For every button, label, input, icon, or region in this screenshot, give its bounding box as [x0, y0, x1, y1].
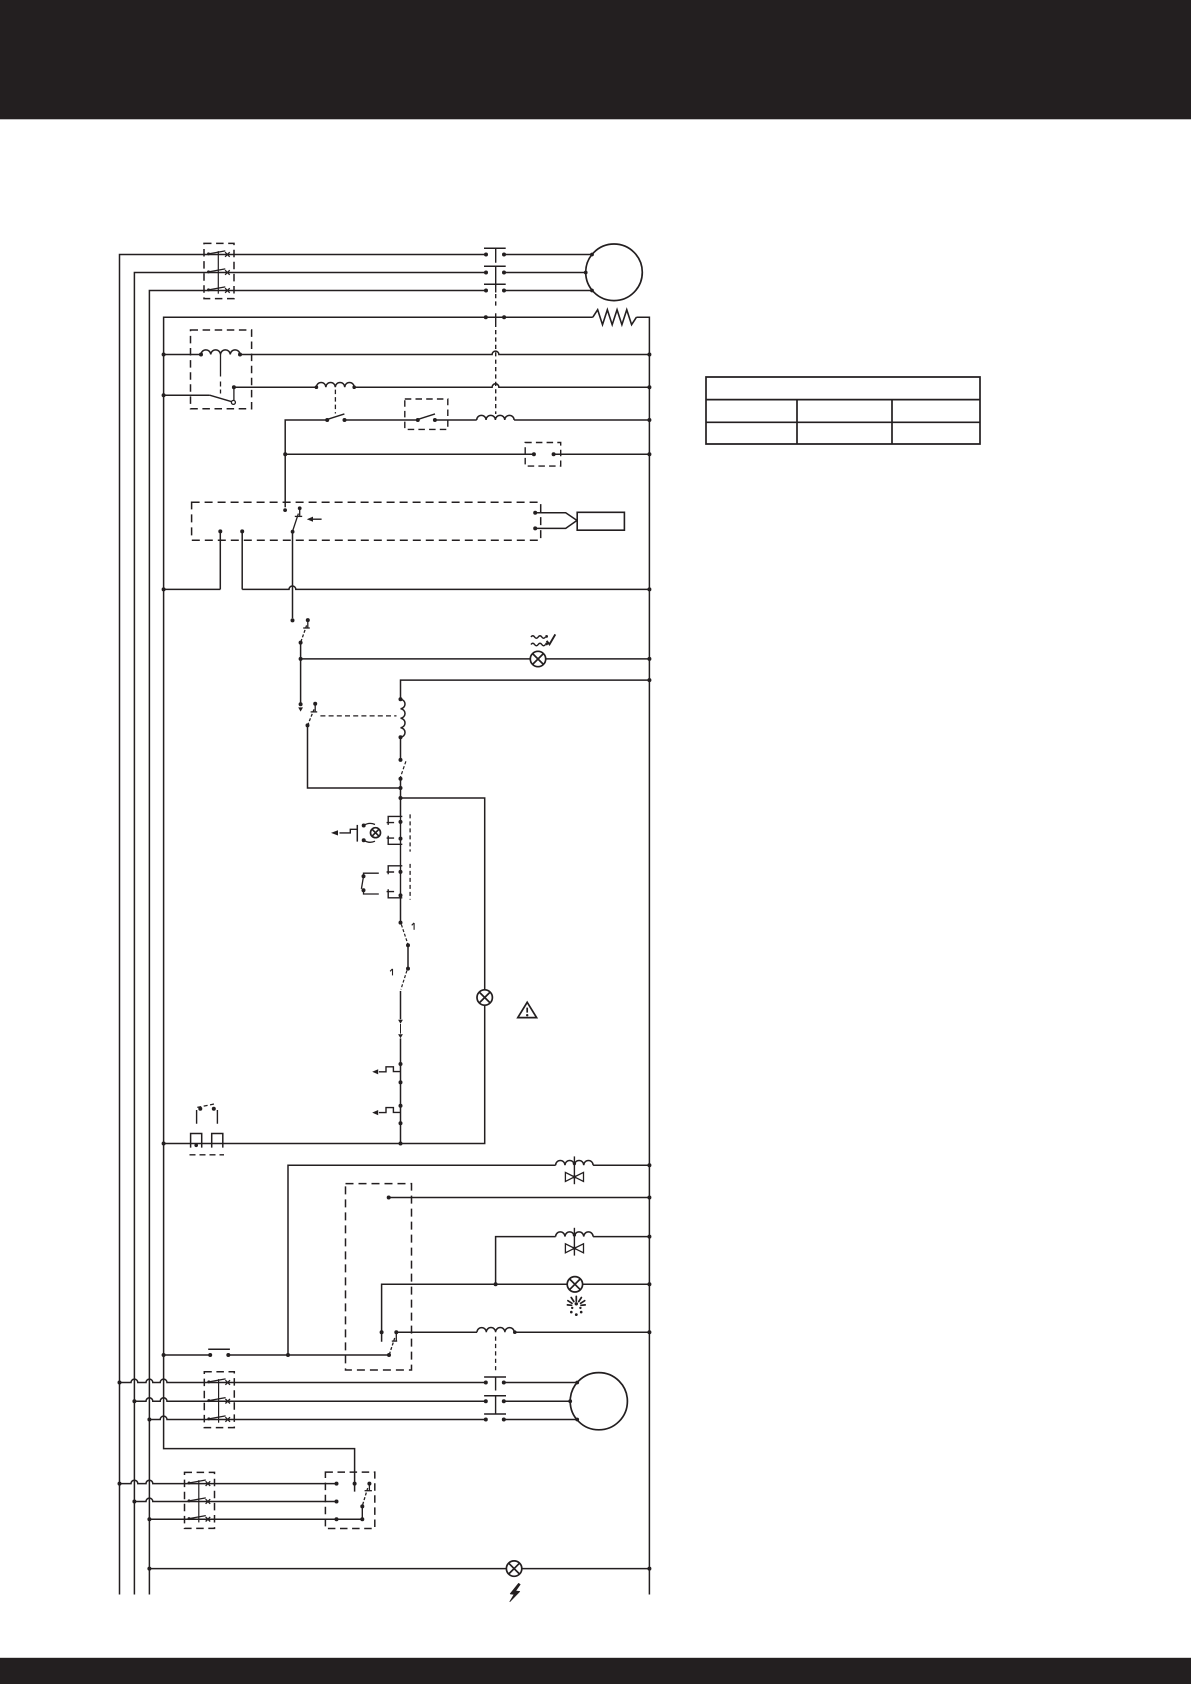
push-button actuation arrow: [331, 829, 357, 835]
overload protector OL2: [484, 1377, 506, 1422]
indicator lamp power: [506, 1561, 521, 1576]
legend table (empty): [706, 377, 980, 444]
wire timer terminal line: [387, 1196, 650, 1200]
voltage selector dashed box: [325, 1472, 374, 1528]
inline connector pair on control column: [398, 1020, 403, 1144]
timer dashed enclosure: [346, 1184, 412, 1370]
relay coil K5 (vertical): [399, 697, 406, 760]
push-button lamp assembly: [357, 823, 380, 842]
wire sensor bus: [164, 586, 650, 589]
icon wrinkle-guard squiggles + check: [531, 634, 555, 645]
wire gas valve 2 line: [494, 1237, 556, 1287]
page header bar: [0, 0, 1191, 119]
indicator lamp flame: [567, 1277, 582, 1292]
wire selector line: [164, 1349, 391, 1357]
icon spray/steam: [567, 1296, 585, 1316]
wire aux motor line: [396, 1331, 477, 1333]
aux switch on PB2: [361, 873, 378, 894]
page footer bar: [0, 1658, 1191, 1684]
indicator lamp DRY: [530, 651, 545, 666]
wire bus L2 + phase 2 feed: [132, 273, 486, 1595]
mech link S2 to relay coil: [320, 715, 396, 717]
push-button start contact PB1: [387, 814, 411, 851]
wire start branch to lamp column: [401, 798, 485, 990]
wire S2 to coil return: [308, 725, 401, 788]
wire gas valve 1 line: [286, 1165, 556, 1357]
contactor K4 (aux, 3-pole): [185, 1472, 215, 1528]
wire M2 phase B: [134, 1398, 486, 1401]
wire M2 phase B out: [504, 1399, 572, 1403]
switch S4: [390, 967, 410, 1020]
wire phase 3 to motor M1: [504, 289, 594, 293]
mech link start winding to OL2: [495, 1337, 497, 1372]
thermostat contact T1: [325, 414, 418, 422]
wire M2 phase C: [149, 1416, 486, 1419]
wire bus L1 + phase 1 feed: [118, 255, 487, 1595]
wire K2 contact out: [232, 385, 317, 400]
inductor heat relay coil: [315, 382, 650, 389]
wire flame lamp line: [380, 1284, 650, 1341]
thermal cutoff box (dashed): [405, 399, 448, 429]
gas valve coil V2: [556, 1228, 650, 1256]
wire M2 phase A out: [504, 1381, 579, 1385]
mech link inductor to thermal contact: [334, 390, 336, 414]
overload protector OL1 (bars and stems): [484, 248, 506, 307]
wire K2 contact common: [164, 394, 210, 396]
mech link K2 coil to contact: [220, 355, 222, 394]
wire bus L3 + phase 3 feed: [147, 291, 486, 1595]
door switch S-door: [283, 506, 302, 533]
icon lightning bolt: [510, 1583, 520, 1601]
thermostat contact T2: [416, 414, 477, 422]
wire lamp line (dry check): [299, 657, 650, 661]
inductor heater element coil: [477, 415, 650, 420]
wire selector phase 3: [149, 1517, 364, 1521]
wire K2 coil line: [164, 350, 650, 357]
thermostat S1: [299, 618, 310, 659]
momentary tap AT1: [372, 1062, 402, 1084]
contact K2 blade: [210, 395, 236, 404]
wire phase 2 to motor M1: [504, 271, 588, 275]
wire M2 phase C out: [504, 1418, 579, 1422]
igniter module box: [577, 512, 624, 530]
door switch terminal A: [218, 529, 222, 589]
wire interlock line right: [552, 452, 650, 456]
wire bus L4 control feed + heater line: [162, 317, 593, 1491]
push-button stop contact PB2: [387, 844, 411, 899]
overload contact OL1-aux on heater line: [484, 313, 506, 414]
relay K2 dashed box: [191, 330, 252, 409]
wire phase 1 to motor M1: [504, 253, 594, 257]
door switch dashed enclosure: [192, 502, 541, 540]
thermostat S2 with connector arrow: [298, 659, 317, 728]
motor M1 (drive motor): [586, 244, 643, 301]
wire interlock line: [285, 452, 536, 456]
connector J1 (dashed box): [525, 443, 561, 467]
gas valve coil V1: [556, 1156, 650, 1184]
voltage selector switch: [360, 1482, 372, 1520]
wire igniter lead 2: [533, 521, 577, 531]
contactor K1 (drive motor, 3-pole): [204, 243, 234, 298]
wire control rail: [164, 1005, 485, 1145]
momentary tap AT2: [372, 1104, 402, 1126]
contactor K3 (fan motor, 3-pole): [204, 1372, 234, 1428]
wire power lamp line: [149, 1568, 649, 1570]
relay contact K5-1: [399, 758, 406, 817]
resistor heater R1: [593, 310, 637, 325]
wire selector phase 2: [134, 1498, 338, 1503]
warning triangle icon: [518, 1002, 537, 1017]
switch S3: [399, 921, 415, 969]
timer switch T-aux: [389, 1330, 398, 1354]
indicator lamp caution: [477, 990, 492, 1005]
wire selector phase 1: [120, 1480, 339, 1485]
wire thermal line from door-switch branch: [283, 420, 327, 507]
wire igniter lead 1: [533, 511, 577, 520]
wire door switch output (hops sensor bus): [291, 532, 295, 623]
wire right bus N: [636, 317, 651, 1594]
motor M2 (fan motor): [570, 1373, 627, 1430]
door switch terminal B: [240, 529, 244, 589]
door actuation arrow: [307, 517, 322, 522]
wire cooldown branch: [401, 680, 650, 699]
relay RL contact (on control rail): [190, 1104, 225, 1155]
wire M2 phase A: [120, 1379, 487, 1382]
wire main control column upper: [400, 898, 402, 923]
inductor motor start winding: [477, 1328, 649, 1334]
